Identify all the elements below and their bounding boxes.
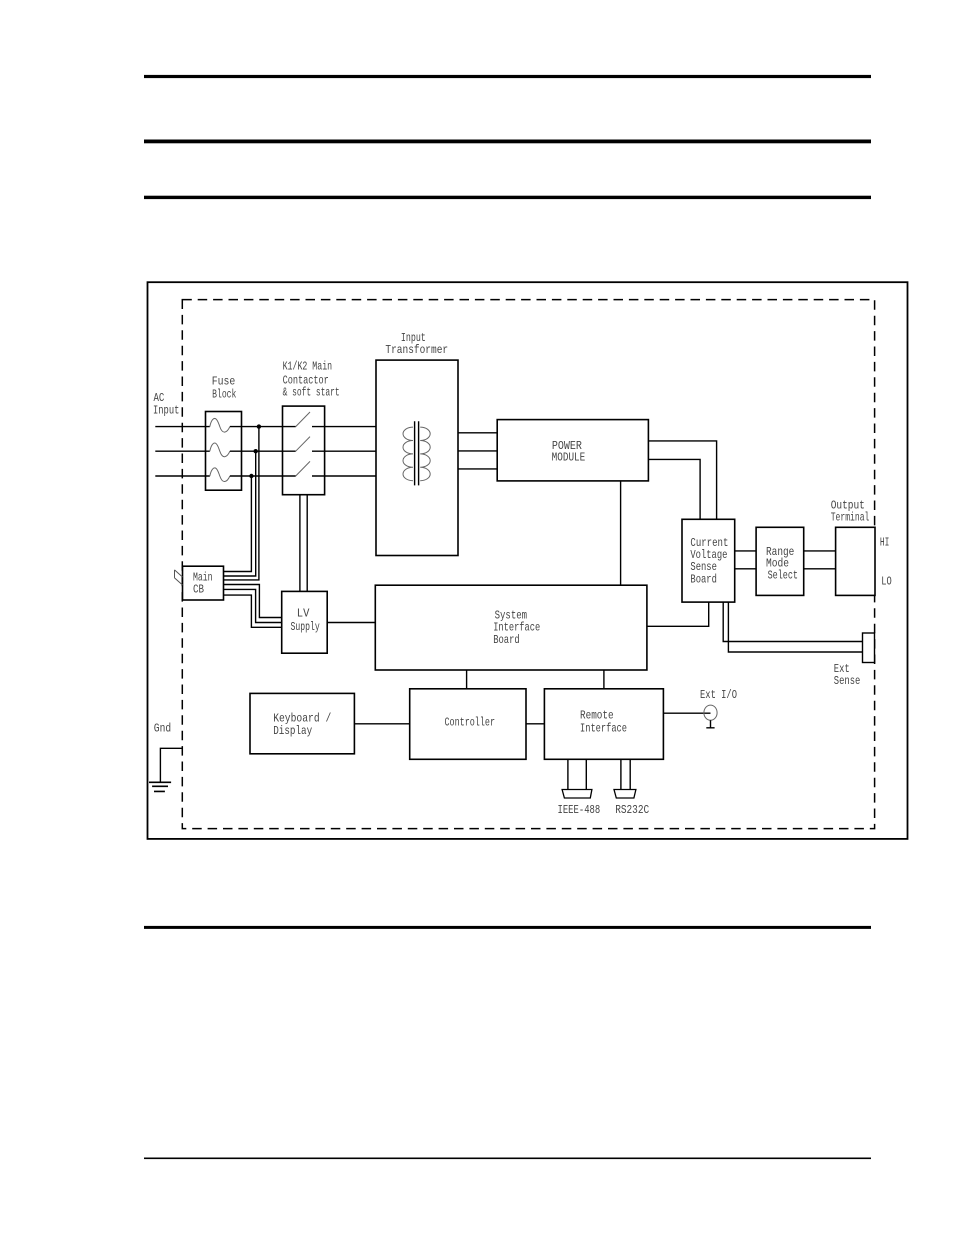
wire RMS to output 1: [804, 550, 836, 552]
switch blade C: [296, 461, 310, 476]
ext sense connector: [863, 633, 875, 663]
label Remote Interface: [580, 709, 627, 736]
label System Interface Board: [493, 608, 540, 647]
wire transformer out 2: [458, 450, 497, 452]
svg-text:HI: HI: [880, 536, 890, 550]
contactor K1/K2 box: [283, 406, 325, 495]
label AC Input: [153, 391, 179, 417]
transformer primary coil: [403, 427, 413, 481]
svg-text:Board: Board: [690, 572, 717, 586]
wire CB to LV 3: [223, 595, 281, 627]
system interface board box: [375, 585, 647, 670]
label LV Supply: [291, 607, 320, 635]
wire phase B mid: [230, 450, 296, 452]
wire keyboard to controller: [354, 723, 409, 725]
svg-text:Controller: Controller: [445, 716, 496, 730]
svg-text:Supply: Supply: [291, 620, 320, 634]
svg-text:Interface: Interface: [580, 722, 627, 736]
wire PM out A: [648, 441, 716, 519]
figure outer border: [148, 282, 908, 839]
svg-text:IEEE-488: IEEE-488: [558, 803, 601, 817]
switch blade B: [296, 437, 310, 452]
wire SIB to controller: [466, 670, 468, 689]
output terminal box: [836, 527, 875, 595]
top rule 1: [144, 75, 871, 78]
svg-text:Select: Select: [768, 569, 798, 583]
svg-text:Display: Display: [273, 724, 312, 738]
chassis dashed border: [182, 300, 874, 829]
transformer core: [415, 421, 419, 485]
label Current Voltage Sense Board: [690, 536, 728, 586]
wire phase A mid: [230, 426, 296, 428]
bottom rule 1: [144, 926, 871, 929]
svg-text:& soft start: & soft start: [283, 386, 340, 400]
controller box: [410, 689, 526, 760]
wire phase C left: [155, 475, 210, 477]
wire phase C mid: [230, 475, 296, 477]
top rule 2: [144, 140, 871, 144]
ground wire: [160, 748, 182, 782]
node phase C tap: [249, 474, 253, 478]
svg-text:Ext I/O: Ext I/O: [700, 688, 737, 702]
svg-text:Sense: Sense: [834, 674, 861, 688]
power module box: [497, 420, 648, 481]
current voltage sense board box: [682, 519, 735, 602]
fuse block box: [206, 412, 242, 491]
wire remote to ext IO: [663, 712, 710, 714]
transformer secondary coil: [420, 427, 430, 481]
wire PM bottom to SIB: [620, 481, 622, 585]
wire transformer out 3: [458, 468, 497, 470]
label Keyboard / Display: [273, 711, 331, 738]
ext IO pin: [706, 720, 714, 728]
label K1/K2 Main Contactor & soft start: [283, 360, 340, 400]
label Fuse Block: [212, 375, 237, 402]
ground symbol: [149, 782, 171, 791]
IEEE-488 connector stub: [568, 760, 586, 790]
label Input Transformer: [385, 331, 448, 357]
svg-text:Block: Block: [212, 388, 236, 402]
fuse F3: [210, 468, 230, 482]
svg-text:RS232C: RS232C: [615, 803, 649, 817]
wire sense to RMS 2: [735, 568, 756, 570]
main CB box: [183, 566, 224, 600]
top rule 3: [144, 196, 871, 199]
wire SIB to remote: [603, 670, 605, 689]
svg-text:Terminal: Terminal: [831, 511, 870, 525]
svg-text:Fuse: Fuse: [212, 375, 236, 389]
wire tap A down to Main CB: [223, 427, 259, 580]
wire controller to remote: [526, 723, 544, 725]
range mode select box: [756, 527, 804, 595]
wire phase A left: [155, 426, 210, 428]
svg-text:Gnd: Gnd: [154, 722, 171, 736]
wire phase B right: [312, 450, 376, 452]
svg-text:CB: CB: [193, 582, 204, 596]
RS232C connector shell: [614, 790, 636, 799]
label Ext Sense: [834, 662, 861, 688]
wire RMS to output 2: [804, 568, 836, 570]
wire sense to RMS 1: [735, 550, 756, 552]
bottom rule 2: [144, 1158, 871, 1160]
breaker handle: [175, 570, 183, 585]
wire CB to LV 1: [223, 585, 281, 618]
wire phase B left: [155, 450, 210, 452]
wire phase A right: [312, 426, 376, 428]
ext IO circle: [704, 705, 717, 720]
svg-text:Board: Board: [493, 633, 520, 647]
svg-text:LV: LV: [297, 607, 310, 621]
svg-text:LO: LO: [881, 574, 892, 588]
svg-text:Input: Input: [153, 403, 179, 417]
wire sense to ext sense 2: [728, 602, 862, 652]
node phase B tap: [254, 449, 258, 453]
node phase A tap: [257, 424, 261, 428]
wire CB to LV 2: [223, 589, 281, 622]
wire PM out B: [648, 459, 700, 519]
RS232C connector stub: [621, 760, 630, 790]
wire transformer out 1: [458, 432, 497, 434]
keyboard display box: [250, 693, 354, 753]
fuse F2: [210, 443, 230, 457]
svg-text:K1/K2 Main: K1/K2 Main: [283, 360, 333, 374]
wire phase C right: [312, 475, 376, 477]
label Main CB: [193, 570, 213, 596]
label POWER MODULE: [552, 439, 586, 465]
wire tap B down to Main CB: [223, 451, 255, 576]
wire tap C down to Main CB: [223, 476, 251, 572]
input transformer box: [376, 360, 458, 555]
label Range Mode Select: [766, 545, 798, 583]
svg-text:MODULE: MODULE: [552, 450, 586, 464]
LV supply box: [282, 591, 328, 653]
wire contactor to LV 1: [299, 495, 301, 592]
label Output Terminal: [831, 499, 870, 525]
remote interface box: [544, 689, 663, 760]
wire SIB to sense board: [647, 602, 709, 626]
switch blade A: [296, 412, 310, 427]
fuse F1: [210, 418, 230, 432]
wire LV to SIB: [327, 622, 375, 624]
IEEE-488 connector shell: [562, 790, 592, 799]
wire sense to ext sense 1: [723, 602, 862, 641]
svg-text:Transformer: Transformer: [385, 343, 448, 357]
wire contactor to LV 2: [306, 495, 308, 592]
